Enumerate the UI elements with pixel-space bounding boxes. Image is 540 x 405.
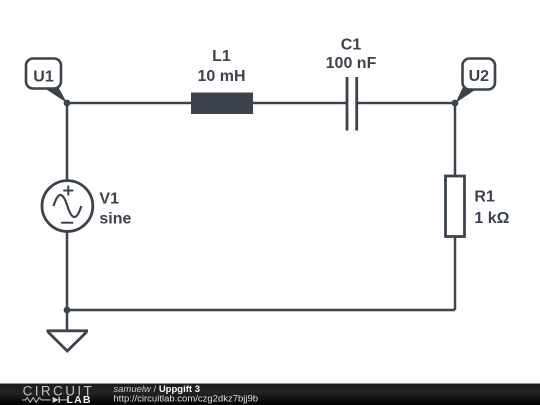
wire right vertical bottom: R1 to bottom wire bbox=[454, 236, 457, 310]
logo diode symbol bbox=[53, 397, 59, 403]
wire left vertical top: node U1 to V1 bbox=[66, 103, 69, 181]
svg-text:U1: U1 bbox=[33, 69, 54, 86]
node dot U2 bbox=[452, 100, 459, 107]
logo diode bar bbox=[58, 397, 60, 403]
ground stem wire bbox=[66, 310, 69, 331]
svg-text:http://circuitlab.com/czg2dkz7: http://circuitlab.com/czg2dkz7bjj9b bbox=[113, 394, 258, 405]
resistor R1 body bbox=[446, 176, 465, 237]
voltage source V1 minus sign bbox=[61, 222, 73, 224]
logo diode wire bbox=[59, 399, 67, 401]
svg-text:sine: sine bbox=[99, 211, 131, 228]
voltage source V1 sine wave bbox=[54, 195, 82, 217]
wire capacitor to node U2 bbox=[357, 102, 455, 105]
inductor L1 body bbox=[191, 93, 253, 115]
node label U2 pointer wedge bbox=[456, 88, 479, 103]
svg-text:100 nF: 100 nF bbox=[326, 55, 377, 72]
wire inductor to capacitor bbox=[253, 102, 347, 105]
svg-text:L1: L1 bbox=[212, 48, 231, 65]
svg-text:V1: V1 bbox=[99, 191, 119, 208]
wire bottom: ground node to right corner bbox=[67, 309, 455, 312]
node dot U1 bbox=[64, 100, 71, 107]
logo resistor zigzag bbox=[22, 398, 50, 403]
svg-text:LAB: LAB bbox=[67, 394, 92, 405]
ground triangle top bar bbox=[47, 329, 89, 332]
voltage source V1 plus sign bbox=[63, 186, 73, 196]
voltage source V1 circle bbox=[42, 181, 93, 232]
footer bar bbox=[0, 384, 540, 405]
capacitor C1 left plate bbox=[346, 77, 349, 131]
svg-text:1 kΩ: 1 kΩ bbox=[474, 210, 509, 227]
wire top-left: node U1 to inductor bbox=[67, 102, 191, 105]
wire left vertical bottom: V1 to ground node bbox=[66, 231, 69, 310]
svg-text:R1: R1 bbox=[474, 189, 495, 206]
node label U1 box bbox=[26, 59, 61, 89]
svg-text:U2: U2 bbox=[469, 68, 490, 85]
svg-text:10 mH: 10 mH bbox=[197, 68, 245, 85]
node label U2 box bbox=[463, 59, 496, 90]
capacitor C1 right plate bbox=[355, 77, 358, 131]
node dot ground bbox=[64, 307, 71, 314]
node label U1 pointer wedge bbox=[44, 88, 68, 104]
svg-text:C1: C1 bbox=[341, 37, 362, 54]
ground triangle vee bbox=[48, 332, 87, 351]
wire right vertical top: node U2 to R1 bbox=[454, 103, 457, 176]
